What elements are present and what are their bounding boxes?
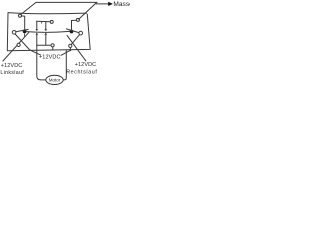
wire motor lead left vertical [37, 21, 46, 80]
motor leads right [63, 50, 66, 80]
enclosure box [7, 13, 90, 51]
pivot circle left relay [12, 31, 16, 35]
wire common bus between contacts [27, 30, 70, 33]
svg-text:+12VDC: +12VDC [1, 63, 23, 69]
wire from +12VDC center to right relay [61, 50, 71, 55]
pivot circle right relay [79, 31, 83, 35]
node terminal circle right top [76, 18, 79, 21]
junction blob right drop [70, 49, 72, 51]
wire stub below dot [24, 33, 26, 36]
node coil terminal circle left [17, 43, 20, 46]
node NC contact dot right [70, 30, 74, 34]
wire center right vertical [45, 22, 47, 45]
wire drop from circle to box bottom [52, 47, 54, 50]
wire drop to box bottom [69, 48, 71, 51]
arrowhead Masse [108, 2, 113, 6]
wire pivot leg down-right [15, 34, 30, 50]
node terminal circle center top [50, 20, 53, 23]
node NC contact dot left [23, 30, 27, 34]
wire hook right terminal to NC contact [72, 20, 77, 29]
node terminal circle left top [19, 14, 22, 17]
wire coil to +12VDC Rechtslauf [67, 35, 86, 61]
masse rail top [36, 1, 97, 3]
svg-text:Motor: Motor [49, 77, 61, 82]
wire center bottom bar [37, 44, 51, 46]
wire to center +12VDC label [30, 50, 41, 55]
crossover arrow right vertical [44, 29, 47, 31]
svg-text:Masse: Masse [113, 1, 130, 8]
wire pivot leg down-left [71, 35, 79, 45]
node terminal circle center bottom [51, 44, 54, 47]
motor M1 [46, 75, 63, 84]
switch arm right relay K2 [66, 29, 78, 33]
svg-text:+12VDC: +12VDC [39, 55, 61, 61]
svg-text:Linkslauf: Linkslauf [0, 70, 24, 76]
svg-text:+12VDC: +12VDC [75, 62, 97, 68]
svg-text:Rechtslauf: Rechtslauf [66, 69, 97, 75]
circuit schematic: two-relay motor reversing circuit [0, 0, 130, 88]
node coil terminal circle right [69, 44, 72, 47]
crossover arrow up-left vertical [35, 29, 38, 31]
wire stub on top bar [41, 21, 43, 23]
wire hook left terminal to NC contact [22, 16, 25, 30]
switch arm left relay K1 [16, 29, 28, 31]
wire diagonal rail to right terminal [79, 3, 97, 20]
wire center top bar [37, 20, 51, 23]
wire coil to +12VDC Linkslauf [3, 32, 29, 61]
wire arrow line to Masse [96, 3, 108, 5]
wire diagonal rail to left terminal [21, 2, 36, 14]
